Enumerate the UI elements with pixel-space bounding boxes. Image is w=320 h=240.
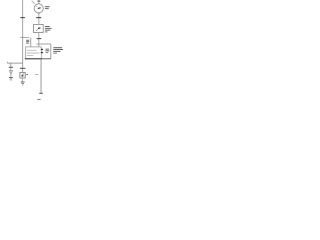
stub below sensor box bbox=[22, 78, 24, 82]
control unit inner text lines bbox=[27, 49, 37, 52]
arrester stub 3 bbox=[10, 74, 12, 77]
ground symbol left bbox=[9, 77, 13, 79]
wire generator to box U1 bbox=[38, 13, 40, 24]
sensor side text bbox=[26, 73, 28, 76]
arrester triangle bbox=[9, 71, 12, 74]
sensor box bbox=[20, 72, 25, 78]
left end stub bbox=[6, 62, 8, 63]
terminal tick B on left bus bbox=[20, 17, 25, 19]
sensor box inner mark bbox=[22, 75, 24, 77]
converter box U1 bbox=[34, 24, 44, 32]
small tick left of output wire bbox=[35, 74, 38, 76]
bypass wire right (horizontal) bbox=[36, 43, 50, 45]
ground symbol right bbox=[21, 81, 25, 83]
branch wire from left bus (horizontal) bbox=[20, 36, 29, 38]
right edge arrow marks bbox=[41, 49, 43, 50]
wire U1 down to control box bbox=[38, 33, 40, 47]
leader line to generator bbox=[32, 1, 35, 4]
sensor branch: left bus continues down bbox=[22, 63, 24, 72]
bypass wire down (vertical) bbox=[50, 44, 52, 59]
annotation text block far right bbox=[53, 46, 62, 49]
wire top stub above generator bbox=[38, 0, 40, 4]
end terminal tick bbox=[39, 92, 43, 94]
arrester plate bar bbox=[9, 66, 13, 68]
annotation text cluster 1 bbox=[46, 48, 49, 51]
terminal dash at circle bottom bbox=[38, 12, 40, 14]
control unit bottom edge (darker) bbox=[25, 58, 43, 60]
terminal tick C bbox=[37, 38, 42, 40]
arrester: stub from wire bbox=[10, 63, 12, 67]
control unit box bbox=[26, 47, 42, 59]
arrester stub 2 bbox=[10, 68, 12, 71]
terminal tick A on center wire bbox=[36, 17, 41, 19]
side wire down to control box bbox=[30, 37, 32, 47]
terminal tick on top stub bbox=[37, 0, 40, 2]
bottom edge mark bbox=[37, 99, 40, 100]
label text right of generator bbox=[45, 5, 50, 8]
terminal dash at circle top bbox=[38, 3, 40, 5]
bottom horizontal wire bbox=[7, 62, 22, 64]
sensor top plate bar bbox=[20, 67, 26, 69]
annotation text right of U1 bbox=[45, 25, 50, 28]
left bus wire (vertical) bbox=[22, 0, 24, 63]
generator G1 circle bbox=[34, 4, 43, 13]
converter U1 inner symbol bbox=[38, 27, 40, 30]
link component (stacked bars) bbox=[26, 39, 29, 42]
output wire below control box bbox=[40, 59, 42, 93]
generator G1 inner symbol bbox=[38, 7, 41, 10]
